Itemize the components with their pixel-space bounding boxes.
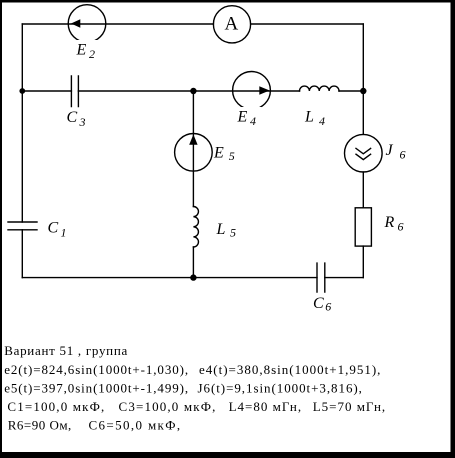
node dot B <box>360 88 366 94</box>
node dot D <box>190 274 196 280</box>
svg-text:C1=100,0 мкФ,C3=100,0 мкФ,L4=8: C1=100,0 мкФ,C3=100,0 мкФ,L4=80 мГн,L5=7… <box>7 399 386 414</box>
EMF source E2 circle <box>68 5 106 43</box>
capacitor C1 plates <box>8 222 37 230</box>
svg-text:E: E <box>213 145 224 162</box>
resistor R6 body <box>355 208 371 246</box>
frame border left <box>0 0 2 458</box>
label E2 <box>74 40 100 61</box>
svg-text:6: 6 <box>398 220 404 234</box>
EMF source E4 circle <box>233 72 271 110</box>
node dot A <box>19 88 25 94</box>
wire middle vertical: node C through E5 to L5 <box>192 91 194 207</box>
svg-text:R: R <box>384 214 395 231</box>
current source J6 circle <box>345 134 383 172</box>
EMF source E5 circle <box>175 134 213 172</box>
frame border bottom <box>0 452 455 458</box>
wire mid horizontal: L4 to node B <box>339 90 363 92</box>
svg-text:R6=90 Ом,C6=50,0 мкФ,: R6=90 Ом,C6=50,0 мкФ, <box>8 418 182 433</box>
svg-text:3: 3 <box>79 115 86 129</box>
node dot C <box>190 88 196 94</box>
svg-text:Вариант 51 , группа: Вариант 51 , группа <box>4 343 128 358</box>
wire left vertical: node A to C1 <box>21 91 23 222</box>
wire bottom horizontal: C6 to right corner <box>325 277 364 279</box>
current source J6 chevrons <box>356 148 371 159</box>
svg-text:A: A <box>225 14 239 35</box>
wire right vertical upper <box>362 24 364 91</box>
wire mid horizontal: C3 to L4 <box>78 90 299 92</box>
svg-text:2: 2 <box>89 47 95 61</box>
svg-text:e5(t)=397,0sin(1000t+-1,499),J: e5(t)=397,0sin(1000t+-1,499),J6(t)=9,1si… <box>4 380 363 395</box>
parameters text block <box>4 343 386 432</box>
svg-text:C: C <box>67 109 78 126</box>
svg-text:E: E <box>76 42 87 59</box>
svg-text:E: E <box>237 109 248 126</box>
arrow of E5 (up) <box>189 134 197 144</box>
label E4 <box>235 107 262 128</box>
wire bottom horizontal: left corner to C6 <box>22 277 317 279</box>
inductor L4 coil <box>300 86 340 91</box>
wire mid horizontal: node A to C3 <box>22 90 71 92</box>
svg-text:5: 5 <box>229 149 235 163</box>
svg-text:L: L <box>216 221 226 238</box>
inductor L5 coil <box>193 207 198 247</box>
svg-text:4: 4 <box>250 114 256 128</box>
capacitor C3 plates <box>71 76 78 107</box>
svg-text:6: 6 <box>325 300 331 314</box>
wire middle vertical: L5 to node D <box>192 247 194 278</box>
svg-text:J: J <box>386 142 394 159</box>
wire top horizontal left of ammeter <box>22 23 213 25</box>
svg-text:4: 4 <box>319 114 325 128</box>
wire top horizontal right of ammeter <box>251 23 364 25</box>
frame border top <box>0 0 455 3</box>
wire right vertical: J6 to R6 <box>362 172 364 208</box>
svg-text:1: 1 <box>61 226 67 240</box>
arrow of E4 (right) <box>259 86 269 95</box>
ammeter A circle <box>213 6 250 43</box>
wire right vertical: node B to J6 <box>362 91 364 134</box>
svg-text:L: L <box>304 109 314 126</box>
svg-text:C: C <box>48 220 59 237</box>
svg-text:C: C <box>313 295 324 312</box>
svg-text:6: 6 <box>400 148 406 162</box>
wire left vertical upper <box>21 24 23 91</box>
capacitor C6 plates <box>317 263 325 292</box>
wire right vertical: R6 to bottom corner <box>362 246 364 278</box>
frame border right <box>451 0 455 458</box>
wire left vertical: C1 to bottom corner <box>21 230 23 278</box>
arrow of E2 (left) <box>71 19 80 28</box>
svg-text:5: 5 <box>230 226 236 240</box>
